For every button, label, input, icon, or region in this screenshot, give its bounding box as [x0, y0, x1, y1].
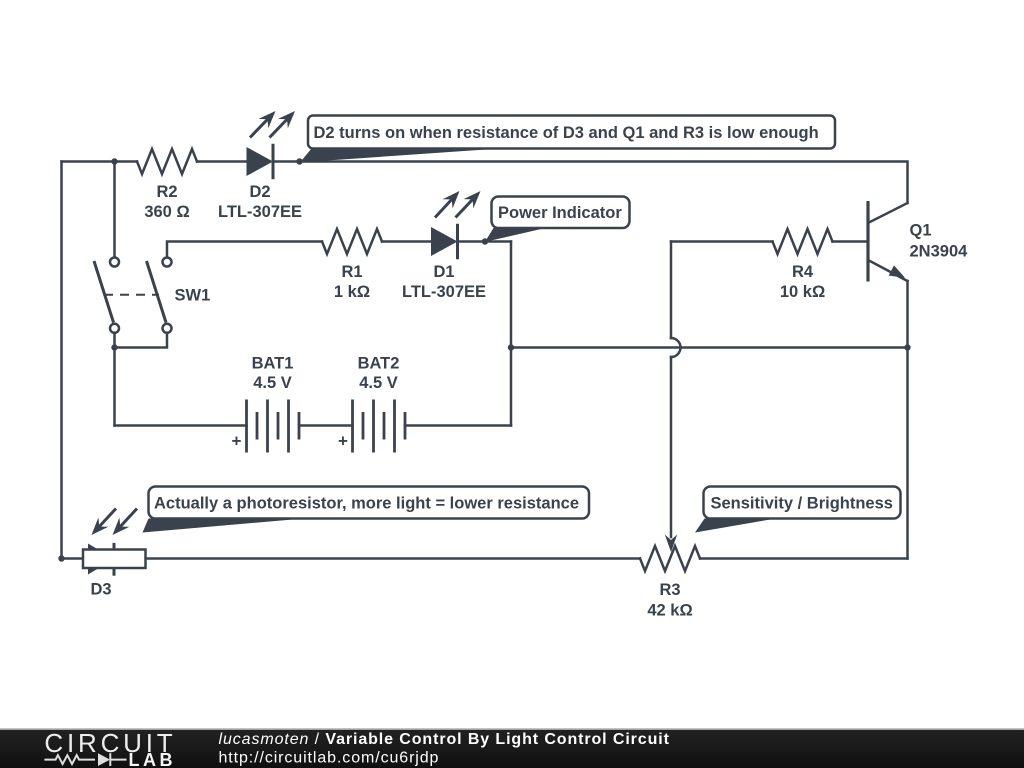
svg-text:2N3904: 2N3904 [910, 243, 969, 261]
wire R4 column upper [670, 242, 673, 339]
CircuitLab logo squiggle [45, 755, 94, 764]
svg-text:R4: R4 [792, 263, 814, 281]
wire battery row left [115, 424, 247, 427]
svg-text:Sensitivity / Brightness: Sensitivity / Brightness [711, 495, 893, 513]
svg-text:http://circuitlab.com/cu6rjdp: http://circuitlab.com/cu6rjdp [219, 750, 440, 767]
svg-text:4.5 V: 4.5 V [253, 374, 292, 392]
svg-text:+: + [338, 432, 348, 451]
svg-text:42 kΩ: 42 kΩ [647, 602, 692, 620]
svg-text:R1: R1 [341, 263, 362, 281]
wire R3 wiper column [670, 357, 673, 537]
switch SW1 blade 1 [94, 261, 114, 323]
resistor R3 [640, 546, 700, 571]
callout box (photoresistor) [149, 487, 590, 519]
wire mid horizontal [511, 346, 908, 349]
callout box (Sensitivity) [704, 487, 901, 519]
wire D2 cathode to top-right corner [273, 162, 908, 204]
switch SW1 gang link (dashed) [104, 294, 159, 296]
junction right rail / mid horizontal [904, 344, 910, 350]
D3 incident arrow 1 [98, 509, 116, 529]
transistor Q1 base bar [866, 201, 869, 282]
callout tail (photoresistor) [143, 519, 305, 533]
D2 emission arrow 2 [270, 117, 289, 137]
junction SW1 bottom link [111, 344, 117, 350]
wire SW1 pole1 bottom down [113, 333, 116, 426]
wire bottom left to D3 [62, 557, 84, 560]
svg-text:lucasmoten / Variable Control: lucasmoten / Variable Control By Light C… [219, 731, 670, 748]
svg-text:10 kΩ: 10 kΩ [780, 283, 825, 301]
D3 incident arrow 2 [119, 509, 137, 529]
junction top rail / SW1 feed [111, 158, 117, 164]
switch SW1 terminal 2 top [163, 258, 172, 267]
svg-text:LTL-307EE: LTL-307EE [402, 283, 486, 301]
wire D1 cathode to corner [458, 240, 512, 243]
transistor Q1 collector [868, 203, 908, 223]
callout box (Power Indicator) [492, 197, 630, 229]
wire SW1 pole1 feed from top rail [113, 162, 116, 258]
callout tail (D2 note) [300, 149, 500, 163]
junction mid column / mid horizontal [508, 344, 514, 350]
transistor Q1 emitter [868, 260, 908, 281]
wire BAT2 to mid column [405, 424, 511, 427]
switch SW1 terminal 1 top [110, 258, 119, 267]
svg-text:D2 turns on when resistance of: D2 turns on when resistance of D3 and Q1… [314, 124, 819, 142]
svg-text:BAT2: BAT2 [358, 355, 400, 373]
D1 emission arrow 2 [456, 198, 475, 218]
svg-text:360 Ω: 360 Ω [144, 203, 189, 221]
resistor R4 [773, 229, 833, 254]
wire BAT1 to BAT2 [299, 424, 353, 427]
resistor R2 [137, 149, 197, 174]
wire R2 to D2 [197, 160, 247, 163]
wire R4 left [671, 240, 773, 243]
wire SW1 bottom link [115, 333, 168, 348]
battery BAT1 [245, 400, 248, 453]
wire mid column vertical [510, 242, 513, 426]
svg-text:+: + [232, 432, 242, 451]
callout tail (Sensitivity) [695, 519, 776, 533]
LED D1 [431, 227, 458, 256]
svg-text:LAB: LAB [129, 750, 177, 768]
wire R4 to Q1 base [833, 240, 867, 243]
svg-text:Actually a photoresistor, more: Actually a photoresistor, more light = l… [154, 495, 579, 513]
D2 emission arrow 1 [250, 117, 269, 137]
svg-text:D2: D2 [249, 183, 270, 201]
wire D3 to R3 [146, 557, 641, 560]
svg-text:Q1: Q1 [910, 222, 932, 240]
wire left vertical rail [60, 162, 63, 559]
photoresistor D3 body rect [83, 550, 146, 569]
wire top-left horizontal [62, 160, 138, 163]
resistor R1 [322, 229, 382, 254]
wire R1 to D1 [382, 240, 431, 243]
photoresistor D3 diode body [88, 544, 114, 575]
footer bar [0, 729, 1024, 768]
svg-text:4.5 V: 4.5 V [359, 374, 398, 392]
callout box (D2 note) [308, 116, 835, 149]
svg-text:SW1: SW1 [175, 287, 211, 305]
svg-text:R2: R2 [156, 183, 177, 201]
switch SW1 terminal 2 bottom [163, 324, 172, 333]
svg-text:BAT1: BAT1 [252, 355, 294, 373]
battery BAT2 [351, 400, 354, 453]
junction left rail / D3 [58, 555, 64, 561]
wire right vertical rail [906, 281, 909, 559]
svg-text:Power Indicator: Power Indicator [498, 204, 622, 222]
svg-text:D1: D1 [433, 263, 454, 281]
wire R3 to right rail [700, 557, 908, 560]
switch SW1 terminal 1 bottom [110, 324, 119, 333]
svg-text:1 kΩ: 1 kΩ [334, 283, 370, 301]
R3 wiper arrowhead [665, 535, 677, 553]
LED D2 [247, 147, 274, 176]
svg-text:LTL-307EE: LTL-307EE [218, 203, 302, 221]
D1 emission arrow 1 [435, 198, 453, 218]
callout tail (Power Indicator) [485, 228, 546, 242]
wire hop over mid horizontal [671, 338, 681, 357]
junction D1 cathode node [482, 238, 488, 244]
switch SW1 blade 2 [147, 261, 167, 323]
junction D2 cathode node [296, 158, 302, 164]
wire SW1 pole2 up to R1 row [167, 242, 322, 258]
svg-text:D3: D3 [90, 581, 111, 599]
svg-text:R3: R3 [659, 581, 680, 599]
